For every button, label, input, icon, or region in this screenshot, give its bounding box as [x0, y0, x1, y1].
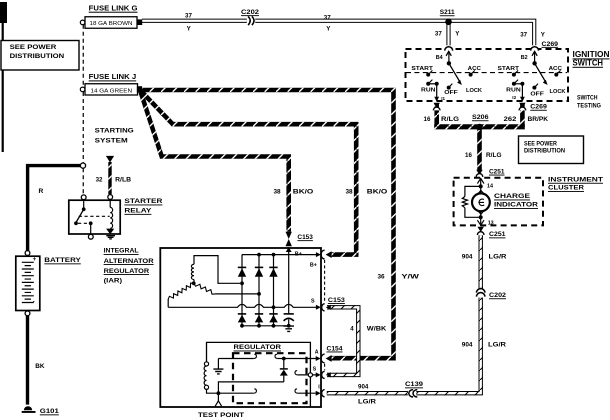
wire phase 2 tap to diode leg 2	[216, 293, 259, 295]
connector C153 (top B+)	[286, 232, 292, 239]
wire RUN output drop	[428, 83, 437, 85]
rectifier diode leg 1	[241, 255, 243, 326]
wire stator to S rail	[167, 299, 169, 307]
svg-text:RUN: RUN	[506, 88, 521, 94]
contact RUN	[426, 82, 430, 86]
svg-text:C154: C154	[327, 345, 344, 352]
svg-text:BATTERY: BATTERY	[44, 257, 81, 264]
svg-text:904: 904	[462, 254, 473, 261]
wire 262 BR/PK ignition switch I2 drop	[520, 104, 525, 127]
svg-text:37: 37	[435, 30, 442, 37]
svg-text:C202: C202	[241, 9, 260, 16]
arrow from starting system	[106, 156, 114, 163]
svg-text:Y/W: Y/W	[401, 274, 420, 281]
contact START	[426, 73, 430, 77]
ignition switch dashed box	[406, 49, 569, 101]
diode upper leg 1	[238, 266, 246, 268]
svg-text:B2: B2	[521, 55, 528, 61]
svg-text:37: 37	[324, 15, 331, 22]
node I / test point junction	[217, 391, 221, 395]
svg-text:S206: S206	[472, 114, 489, 121]
svg-text:LG/R: LG/R	[489, 254, 507, 261]
svg-text:18 GA BROWN: 18 GA BROWN	[90, 21, 133, 27]
svg-text:LG/R: LG/R	[488, 342, 506, 349]
connector I cavity	[322, 390, 325, 397]
charge indicator lamp	[472, 193, 490, 211]
svg-text:SYSTEM: SYSTEM	[95, 137, 128, 144]
svg-text:BK/O: BK/O	[293, 189, 314, 196]
ground (regulator A circuit)	[217, 359, 219, 369]
svg-text:CLUSTER: CLUSTER	[548, 185, 584, 192]
splice S206 dot	[476, 124, 483, 131]
svg-text:B+: B+	[295, 251, 302, 257]
svg-text:CHARGE: CHARGE	[494, 193, 531, 200]
connector C202 (right)	[475, 290, 486, 297]
svg-text:LG/R: LG/R	[358, 398, 377, 405]
svg-text:INDICATOR: INDICATOR	[494, 202, 538, 209]
svg-text:START: START	[498, 66, 520, 72]
terminal block fuse link J output / wire bundle origin	[137, 86, 142, 92]
connector C251 (top)	[476, 170, 482, 175]
svg-text:C153: C153	[328, 297, 346, 304]
ignition switch internal dashed divider	[406, 72, 567, 74]
connector C153 S cavity	[322, 304, 325, 311]
svg-text:OFF: OFF	[444, 90, 458, 96]
wire 904 LG/R from C202 to alternator I terminal via C139	[327, 298, 481, 394]
wire 16 R/LG from S206 to C251	[477, 129, 482, 171]
rectifier diode leg 2	[258, 255, 260, 326]
svg-text:14 GA GREEN: 14 GA GREEN	[91, 88, 133, 94]
svg-text:262: 262	[504, 116, 517, 123]
stator winding (right)	[194, 283, 216, 294]
fuse link G (18 GA BROWN)	[85, 17, 137, 29]
svg-text:37: 37	[185, 13, 192, 20]
wire R from battery to starter relay feed	[28, 166, 81, 252]
wire BK	[26, 316, 29, 405]
battery + terminal	[25, 251, 30, 256]
svg-text:B4: B4	[436, 55, 443, 61]
node rail leg3	[272, 253, 276, 257]
wire 37 Y from fuse link G to C202	[142, 19, 247, 23]
svg-text:BK/O: BK/O	[367, 189, 388, 196]
connector C153 B+ cavity	[321, 250, 325, 259]
note box SEE POWER DISTRIBUTION (left)	[1, 41, 79, 71]
relay coil	[109, 199, 111, 207]
starter relay box	[69, 200, 120, 234]
svg-text:A: A	[315, 350, 319, 356]
switch pivot B2	[534, 51, 536, 62]
note box SEE POWER DISTRIBUTION (right)	[519, 136, 584, 164]
svg-text:START: START	[411, 66, 433, 72]
connector C154 A cavity	[321, 354, 325, 363]
node leg1 phase tap	[240, 281, 244, 285]
diode upper leg 2	[255, 266, 263, 268]
contact ACC	[469, 73, 473, 77]
fuse link J (14 GA GREEN)	[85, 84, 138, 95]
wire A circuit (left segment with test curl)	[218, 358, 253, 360]
svg-text:4: 4	[350, 325, 354, 332]
stator winding (phase 1 coil)	[191, 264, 194, 279]
stator star point	[192, 281, 196, 285]
svg-text:ACC: ACC	[468, 66, 482, 72]
svg-text:SWITCH: SWITCH	[577, 94, 598, 101]
wire brush to I node	[207, 389, 219, 393]
wire 37 Y from C202 to S211 and ignition switch B2	[255, 21, 534, 46]
resistor in parallel with lamp	[465, 186, 481, 196]
wire diode to I node	[218, 382, 283, 393]
svg-text:ACC: ACC	[549, 66, 563, 72]
svg-text:C139: C139	[405, 381, 424, 388]
svg-text:(IAR): (IAR)	[104, 277, 123, 284]
wire 36 Y/W from fuse link J to alternator A terminal	[140, 90, 394, 358]
switch pivot B4	[448, 51, 450, 62]
connector C269 below I2 drop	[519, 103, 525, 108]
regulator diode	[283, 359, 285, 369]
rectifier ground rail	[242, 325, 289, 327]
svg-text:16: 16	[424, 116, 431, 123]
svg-text:13: 13	[488, 220, 494, 226]
svg-text:FUSE LINK J: FUSE LINK J	[89, 72, 137, 81]
connector C153 dashed gang line	[324, 260, 326, 303]
svg-text:B+: B+	[310, 263, 317, 269]
wire 32 R/LB	[108, 162, 111, 194]
svg-text:INSTRUMENT: INSTRUMENT	[548, 177, 603, 184]
svg-text:C251: C251	[489, 231, 506, 238]
connector below I1 drop	[434, 103, 440, 108]
svg-text:OFF: OFF	[530, 91, 544, 97]
wire I circuit (right segment with test curl)	[295, 389, 298, 393]
wire RUN output drop	[514, 83, 523, 85]
brush (upper)	[204, 362, 208, 366]
terminal block fuse link G output	[137, 19, 142, 25]
svg-text:38: 38	[346, 189, 354, 196]
svg-text:S: S	[311, 298, 315, 304]
contact OFF	[447, 86, 451, 90]
svg-text:INTEGRAL: INTEGRAL	[104, 248, 139, 255]
wire phase 1 tap to diode leg 1	[194, 256, 240, 284]
dashed power distribution feed line	[82, 25, 84, 195]
svg-text:STARTING: STARTING	[95, 128, 134, 135]
switch arm B2	[535, 63, 546, 81]
svg-text:BR/PK: BR/PK	[528, 116, 549, 123]
relay contact blade	[83, 200, 85, 208]
svg-text:REGULATOR: REGULATOR	[104, 268, 150, 275]
wire 4 W/BK from C153 S to C154 S	[327, 307, 358, 375]
instrument cluster dashed box	[454, 178, 543, 226]
wire 38 BK/O (left) from fuse link J to C153 B+	[140, 90, 289, 232]
contact OFF	[532, 86, 536, 90]
diode lower leg 2	[255, 313, 263, 315]
connector C154 S cavity	[322, 371, 325, 378]
alternator IAR box	[160, 248, 321, 407]
node pin 13	[480, 211, 482, 225]
S tap circle on case wire	[308, 373, 312, 377]
svg-text:FUSE LINK G: FUSE LINK G	[89, 4, 138, 13]
svg-text:W/BK: W/BK	[367, 325, 387, 332]
svg-text:RELAY: RELAY	[124, 208, 152, 215]
svg-text:R/LG: R/LG	[486, 152, 502, 159]
svg-text:SEE POWER: SEE POWER	[524, 141, 557, 148]
svg-text:R/LB: R/LB	[115, 176, 132, 183]
relay terminal circle (R/LB)	[108, 195, 113, 200]
svg-text:DISTRIBUTION: DISTRIBUTION	[524, 148, 565, 155]
svg-text:904: 904	[462, 342, 473, 349]
svg-text:36: 36	[378, 274, 386, 281]
relay actuator dashed links	[79, 215, 110, 217]
ground G101	[24, 406, 32, 410]
svg-text:C251: C251	[489, 168, 505, 175]
connector C139	[408, 390, 416, 397]
svg-text:I2: I2	[512, 95, 516, 100]
svg-text:C269: C269	[530, 104, 547, 111]
svg-text:S: S	[313, 367, 317, 373]
wire I circuit (left segment with test curl)	[218, 392, 253, 394]
lamp filament	[478, 199, 484, 206]
ground (rectifier)	[283, 326, 294, 331]
svg-text:904: 904	[358, 384, 369, 391]
diode upper leg 3	[269, 266, 277, 268]
wire 16 R/LG ignition switch I1 drop	[434, 104, 439, 127]
wire 38 BK/O (right) from fuse link J to alternator B+ terminal	[140, 90, 356, 255]
node pin 14	[479, 184, 483, 188]
svg-text:TESTING: TESTING	[577, 103, 601, 110]
S sense rail	[168, 304, 317, 307]
battery box	[16, 256, 40, 310]
B+ rail	[242, 254, 317, 256]
terminal circle fuse link J	[80, 87, 85, 92]
terminal B4 cup	[445, 47, 453, 51]
contact RUN	[512, 82, 516, 86]
connector C251 (bottom)	[478, 227, 484, 232]
svg-text:16: 16	[465, 152, 472, 159]
wire 37 Y from S211 down to ignition switch B4	[446, 21, 450, 46]
svg-text:TEST POINT: TEST POINT	[198, 412, 244, 419]
capacitor	[288, 255, 290, 314]
svg-text:S211: S211	[440, 9, 455, 16]
connector C154 dashed gang line	[324, 364, 326, 370]
svg-text:STARTER: STARTER	[124, 198, 162, 205]
contact START	[512, 73, 516, 77]
node rail leg2	[257, 253, 261, 257]
switch arm B4	[449, 63, 460, 81]
svg-text:37: 37	[520, 32, 527, 39]
B+ riser to C153	[288, 248, 290, 254]
relay terminal circle (feed)	[81, 195, 86, 200]
svg-text:BK: BK	[35, 363, 45, 370]
svg-text:SEE POWER: SEE POWER	[10, 44, 57, 51]
wire A circuit (right segment with test curl)	[275, 354, 278, 358]
field coil	[204, 366, 206, 385]
brush (lower)	[204, 385, 208, 389]
relay coil ground	[106, 229, 114, 235]
battery - terminal	[25, 311, 30, 316]
svg-text:I1: I1	[441, 96, 445, 101]
terminal circle fuse link G	[80, 20, 85, 25]
diode lower leg 1	[238, 313, 246, 315]
node leg3 on S rail	[272, 305, 276, 309]
svg-text:C269: C269	[542, 41, 559, 48]
svg-text:SWITCH: SWITCH	[573, 59, 604, 68]
svg-text:14: 14	[487, 183, 493, 189]
svg-text:G101: G101	[40, 408, 60, 415]
svg-text:REGULATOR: REGULATOR	[234, 344, 282, 351]
rectifier diode leg 3	[273, 255, 275, 326]
wire 904 LG/R from C251 to C202	[479, 235, 483, 289]
wire into cluster pin 14	[480, 178, 482, 194]
terminal B2 cup (C269)	[531, 47, 539, 51]
svg-text:C153: C153	[297, 234, 313, 241]
splice bus S206	[434, 124, 525, 129]
svg-text:R/LG: R/LG	[441, 116, 459, 123]
svg-text:32: 32	[96, 176, 103, 183]
svg-text:LOCK: LOCK	[466, 88, 483, 94]
svg-text:LOCK: LOCK	[550, 89, 567, 95]
diode lower leg 3	[269, 313, 277, 315]
test point lead	[217, 393, 219, 401]
splice S211	[445, 19, 452, 26]
svg-text:DISTRIBUTION: DISTRIBUTION	[10, 53, 65, 60]
node leg2 phase tap	[257, 292, 261, 296]
svg-text:RUN: RUN	[421, 88, 436, 94]
stator winding (left)	[168, 283, 194, 299]
relay output node	[89, 221, 93, 225]
svg-text:-: -	[33, 299, 35, 305]
svg-text:38: 38	[274, 189, 282, 196]
wire S circuit with test curl	[295, 371, 298, 375]
svg-text:C202: C202	[489, 292, 506, 299]
node A / diode junction	[282, 357, 286, 361]
terminal circle on dashed feed	[80, 163, 85, 168]
svg-text:R: R	[39, 188, 44, 195]
svg-text:ALTERNATOR: ALTERNATOR	[104, 258, 154, 265]
regulator dashed box	[233, 353, 307, 403]
regulator case wire (brush ground path)	[207, 342, 311, 406]
battery cells	[22, 262, 34, 302]
contact ACC	[554, 73, 558, 77]
connector C202 in wire 37	[247, 16, 255, 26]
